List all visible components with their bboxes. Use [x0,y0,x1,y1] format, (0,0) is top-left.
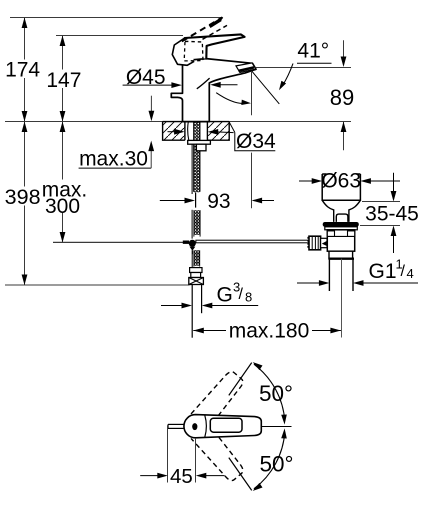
svg-text:G: G [217,284,233,307]
plan view handle joint arc [205,415,207,437]
flexible hose middle segment [194,211,196,213]
drain body lower section [329,251,353,258]
drain plug cap Ø63 [322,174,360,200]
dimension G1-1/4 right arrow [353,280,364,286]
flexible hose lower segment [194,251,196,253]
svg-text:max.30: max.30 [79,148,148,171]
dimension G1-1/4 left arrow [297,282,321,284]
lower 50deg arc [254,432,285,489]
svg-text:G1: G1 [369,260,397,283]
svg-text:174: 174 [5,59,40,82]
spout tip vertical extension line [251,71,253,115]
svg-text:147: 147 [46,69,81,92]
swivel angle lower leg [229,458,252,491]
svg-text:35-45: 35-45 [365,203,419,226]
dimension max.30 lower arrow [150,150,152,168]
mounting nut [196,144,206,151]
drain lift knob [336,214,348,222]
dimension 398 label [4,187,42,206]
dimension 93 left arrow [160,200,187,202]
svg-text:8: 8 [245,290,252,305]
dimension 174 line [24,18,26,122]
upper 50deg arc [254,364,285,421]
extension line top of closed lever (147 ref) [56,35,183,37]
svg-text:4: 4 [407,266,414,281]
svg-text:50°: 50° [259,381,293,406]
lever handle closed position [185,34,245,58]
threaded shank through deck [194,122,196,124]
swivel horizontal reference line [262,426,292,428]
rod junction ball [189,240,196,247]
plan view handle rotated +50deg dashed [191,369,246,429]
counter top extension line [5,121,351,123]
raised lever tip cap [210,20,221,27]
G3/8 connector pieces [190,268,202,273]
dimension Ø63 right arrow [360,178,371,184]
dimension 45 left arrow [140,475,159,477]
svg-text:/: / [401,263,406,280]
dimension Ø34 label with leader [229,122,235,132]
cartridge dashed box [184,41,203,61]
spout inner edge line [197,78,210,89]
hose-end extension line (398 bottom ref) [5,284,190,286]
lever pivot block [172,38,194,66]
faucet centerline tick [195,193,197,208]
supply pipe [191,285,193,338]
svg-text:93: 93 [207,190,230,213]
extension line top of raised lever (174 ref) [10,17,222,19]
plan view handle rotated -50deg dashed [191,424,246,484]
dimension max.300 label [44,180,88,213]
angle reference horizontal line [256,67,351,69]
mounting washer [188,140,211,144]
drain flange rim [325,227,358,230]
dimension 398 line [24,122,26,286]
dimension 35-45 extension lines [362,201,400,203]
dimension max.30 upper arrow [150,96,152,112]
svg-text:50°: 50° [259,452,293,477]
dimension Ø34 left arrow [168,131,177,133]
drain body [327,230,354,251]
plan view lever inset [210,418,242,432]
pop-up rod left segment [53,241,183,243]
dimension 147 line [62,36,64,122]
rod knurled adjuster knob [309,236,321,250]
drain funnel neck [322,200,360,222]
plan view handle body [184,415,261,438]
dimension 35-45 arrows [393,173,395,192]
svg-text:41°: 41° [297,40,329,63]
angle leg diagonal line [252,71,279,104]
svg-text:Ø34: Ø34 [236,130,276,153]
svg-text:398: 398 [5,185,41,209]
rod connector piece [321,238,327,247]
svg-text:max.180: max.180 [229,320,310,343]
G3/8 nut [189,278,204,285]
dimension max.300 line [62,122,64,243]
svg-text:300: 300 [45,195,80,218]
raised lever dashed outline [182,17,223,41]
spout reach extension line under label [251,153,253,209]
41deg arc arrow [283,64,294,86]
dimension G3/8 right arrow [202,303,213,309]
counter deck cross-section with hatching [163,122,185,141]
dimension Ø45 right arrow [210,82,221,88]
dimension 45 label [169,467,194,485]
dimension 45 extension lines [167,426,169,483]
dimension G3/8 left arrow [161,305,184,307]
swivel angle upper leg [229,363,252,396]
faucet body and spout outline [171,59,256,122]
rod pointer clip [322,241,328,247]
dimension 174 label [4,60,42,79]
dimension Ø45 left arrow with leader [123,84,173,86]
dimension max.180 line [193,330,226,332]
svg-text:/: / [239,286,244,303]
dimension Ø34 right arrow [208,129,219,135]
spout aerator tip [236,63,256,73]
plan view pivot dot [192,423,197,430]
spout swivel arc arrow [216,93,243,104]
svg-text:45: 45 [170,465,193,488]
pop-up rod right segment [196,240,309,243]
drain tailpiece [328,259,330,291]
dimension 45 right arrow [196,473,207,479]
svg-text:Ø63: Ø63 [321,170,361,193]
rod clamp block [183,241,189,244]
plan view spout stub [168,423,184,425]
dimension 89 line [343,40,345,57]
svg-text:89: 89 [330,85,354,110]
dimension Ø63 left arrow [299,180,314,182]
dimension 147 label [45,70,82,89]
pop-up rod level extension line (max.300 bottom ref) [53,242,186,244]
dimension 93 label [206,193,232,210]
dimension 93 right arrow [252,198,263,204]
drain flange [323,222,359,227]
drain center rod [341,259,343,338]
